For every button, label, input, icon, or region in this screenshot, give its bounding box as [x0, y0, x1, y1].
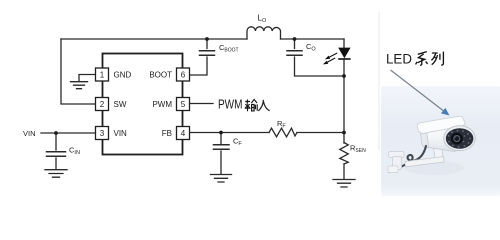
value label RF: [277, 119, 286, 130]
svg-text:CF: CF: [233, 137, 242, 148]
svg-text:BOOT: BOOT: [149, 71, 172, 80]
pin 3 box: [96, 127, 109, 140]
camera body: [420, 120, 460, 151]
photo background: [379, 12, 500, 196]
svg-text:PWM: PWM: [218, 98, 243, 112]
capacitor CIN: [47, 152, 66, 157]
svg-text:6: 6: [181, 71, 186, 80]
ground (CF): [211, 175, 232, 183]
value label L0: [258, 14, 267, 25]
wire pin1 to ground: [79, 75, 95, 82]
node junction dots: [54, 37, 346, 135]
wire top rail from SW loop to output corner: [61, 38, 344, 40]
value label CIN: [69, 146, 80, 157]
wire output corner down to LED: [343, 39, 345, 48]
svg-text:5: 5: [181, 100, 186, 109]
svg-text:3: 3: [100, 129, 105, 138]
capacitor CF: [214, 145, 230, 150]
LED D1: [323, 48, 351, 65]
pin label BOOT: [149, 71, 172, 80]
camera front ring: [444, 126, 476, 151]
camera photo: [388, 116, 475, 175]
pin label GND: [114, 71, 132, 80]
svg-text:CO: CO: [306, 42, 316, 53]
value label CD: [306, 42, 316, 53]
svg-text:RSEN: RSEN: [350, 144, 366, 155]
pin 5 box: [177, 98, 190, 111]
svg-text:4: 4: [181, 129, 186, 138]
node output/CD: [293, 37, 297, 41]
pin label PWM: [152, 100, 172, 109]
pin 1 box: [96, 68, 109, 81]
pin 4 box: [177, 127, 190, 140]
node FB/RF/RSEN: [342, 131, 346, 135]
svg-text:1: 1: [100, 71, 105, 80]
svg-text:FB: FB: [162, 129, 172, 138]
camera rear cap: [420, 125, 429, 147]
resistor RF: [269, 128, 297, 137]
value label CBOOT: [219, 43, 239, 54]
svg-text:SW: SW: [114, 100, 127, 109]
svg-text:LED: LED: [386, 51, 412, 67]
ground (CIN): [45, 170, 67, 178]
value label RSEN: [350, 144, 366, 155]
resistor RSEN: [340, 143, 348, 165]
ground (RSEN): [333, 180, 355, 188]
value label VIN input: [23, 129, 36, 138]
camera shadow: [404, 161, 464, 175]
wire left loop vertical to pin 2 SW: [61, 39, 95, 104]
pin label VIN: [114, 129, 128, 138]
svg-text:VIN: VIN: [114, 129, 128, 138]
wire RF to sense node: [297, 132, 344, 134]
wire VIN input to pin 3: [41, 132, 95, 134]
value label CF: [233, 137, 242, 148]
camera lens: [451, 133, 463, 145]
label LED series (LED 系列): [386, 51, 443, 67]
svg-text:CIN: CIN: [69, 146, 80, 157]
camera bracket post: [434, 148, 444, 162]
pin label SW: [114, 100, 127, 109]
IR LEDs: [448, 130, 471, 148]
svg-text:LO: LO: [258, 14, 267, 25]
svg-text:RF: RF: [277, 119, 286, 130]
camera wall mount arm: [405, 157, 444, 167]
inductor L0: [247, 27, 281, 39]
op-amp/regulator IC U1 body: [103, 54, 183, 155]
node VIN/CIN: [54, 131, 58, 135]
camera front face: [446, 128, 474, 149]
node LED cathode / CD bottom: [342, 74, 346, 78]
svg-text:VIN: VIN: [23, 129, 36, 138]
camera sun shield: [417, 116, 465, 133]
capacitor CD: [287, 51, 302, 56]
ground (pin 1): [71, 82, 88, 89]
camera wall plate: [389, 152, 405, 158]
node FB/CF: [219, 131, 223, 135]
capacitor CBOOT: [200, 51, 215, 56]
node SW/CBOOT: [205, 37, 209, 41]
svg-text:GND: GND: [114, 71, 132, 80]
callout arrow: [391, 70, 450, 116]
wire C_IN drop: [55, 133, 57, 169]
wire pin 5 PWM input: [190, 103, 213, 105]
svg-text:2: 2: [100, 100, 105, 109]
wire LED cathode down to sense node: [343, 59, 345, 143]
pin label FB: [162, 129, 172, 138]
svg-text:CBOOT: CBOOT: [219, 43, 239, 54]
pin 6 box: [177, 68, 190, 81]
svg-text:PWM: PWM: [152, 100, 172, 109]
camera cable: [389, 146, 426, 172]
pin 2 box: [96, 98, 109, 111]
label PWM input (PWM输入): [218, 98, 270, 112]
wire pin 4 FB to RF: [190, 132, 269, 134]
wire RSEN to ground: [343, 164, 345, 179]
wire C_F drop: [220, 133, 222, 175]
wire C_BOOT drop and link to pin 6 BOOT: [190, 39, 207, 75]
wire C_D drop: [295, 39, 345, 76]
